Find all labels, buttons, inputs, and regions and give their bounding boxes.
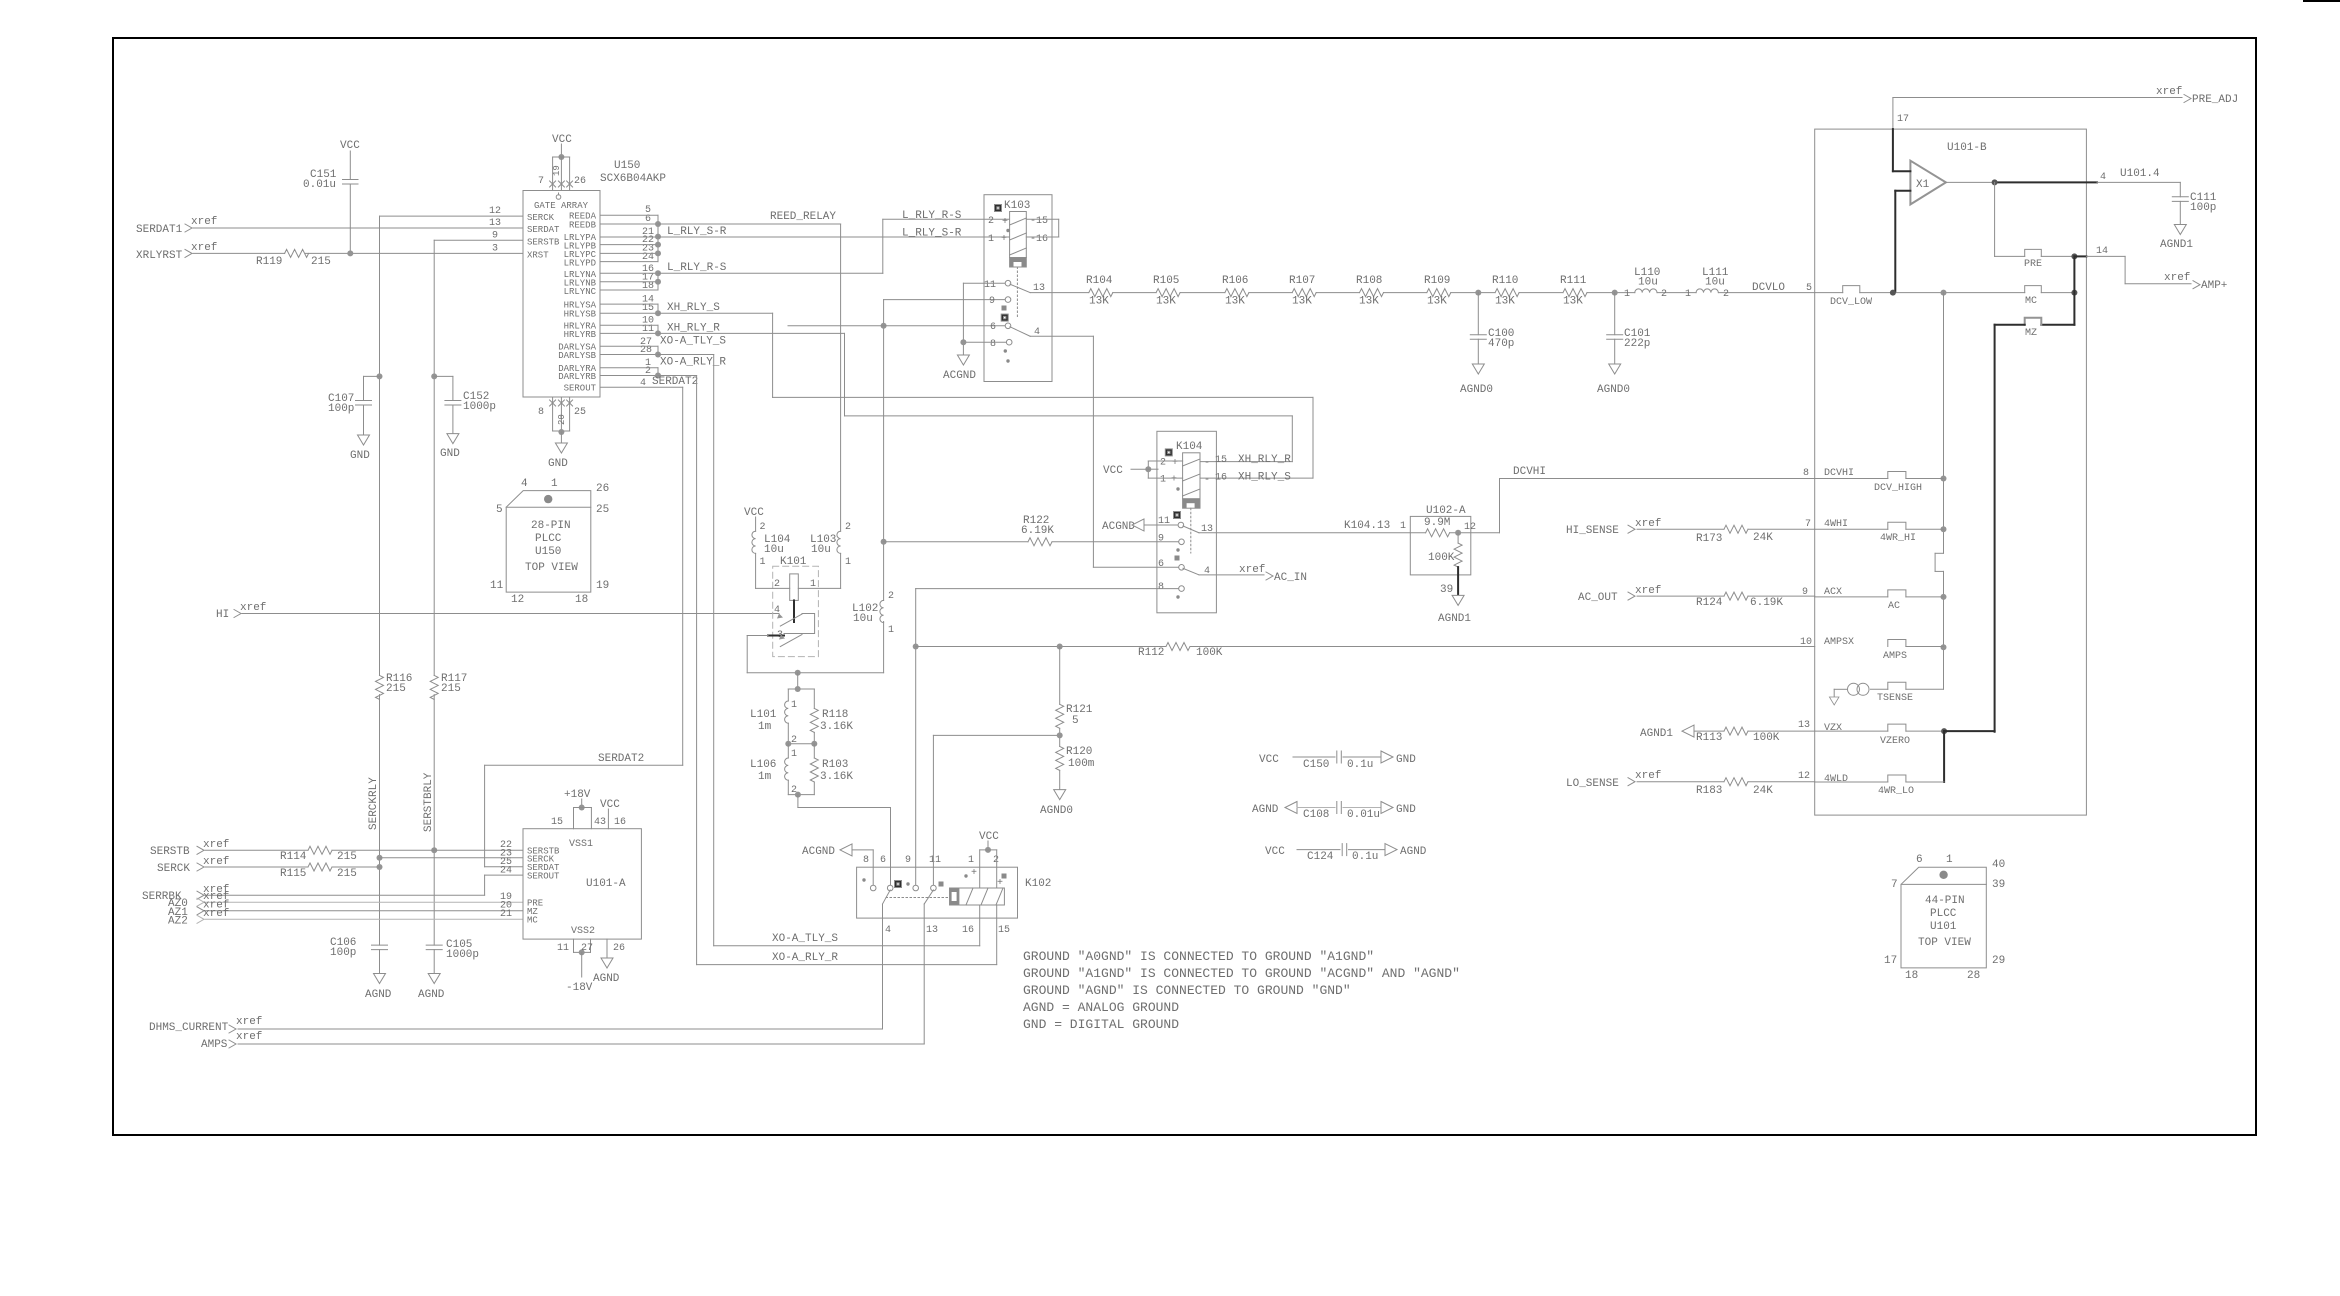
- svg-text:VCC: VCC: [552, 134, 572, 146]
- svg-text:11: 11: [929, 855, 941, 866]
- svg-text:8: 8: [1803, 468, 1809, 479]
- svg-text:MC: MC: [527, 916, 538, 926]
- resistor R124: [1696, 592, 1783, 609]
- svg-text:-: -: [1204, 458, 1210, 469]
- svg-text:DCVHI: DCVHI: [1824, 468, 1854, 479]
- svg-text:MC: MC: [2025, 296, 2037, 307]
- svg-text:25: 25: [596, 504, 609, 516]
- svg-text:R108: R108: [1356, 275, 1382, 287]
- svg-text:U101.4: U101.4: [2120, 168, 2160, 180]
- ground ACGND at K102: [802, 844, 873, 885]
- svg-text:U101-B: U101-B: [1947, 142, 1987, 154]
- svg-text:XO-A_TLY_S: XO-A_TLY_S: [772, 933, 838, 945]
- svg-text:K103: K103: [1004, 200, 1030, 212]
- svg-text:AMPSX: AMPSX: [1824, 637, 1854, 648]
- svg-text:R109: R109: [1424, 275, 1450, 287]
- svg-text:GROUND "AGND" IS CONNECTED TO: GROUND "AGND" IS CONNECTED TO GROUND "GN…: [1023, 983, 1351, 998]
- svg-text:13K: 13K: [1089, 296, 1109, 308]
- node AC_IN output: [1199, 564, 1307, 584]
- svg-text:AMP+: AMP+: [2201, 280, 2227, 292]
- svg-text:VCC: VCC: [1259, 754, 1279, 766]
- svg-text:XO-A_RLY_R: XO-A_RLY_R: [660, 357, 726, 369]
- svg-text:SERDAT1: SERDAT1: [136, 224, 183, 236]
- resistor R106: [1222, 275, 1249, 308]
- svg-text:15: 15: [998, 925, 1010, 936]
- svg-text:HRLYSB: HRLYSB: [564, 310, 597, 320]
- svg-text:AGND1: AGND1: [1438, 613, 1471, 625]
- svg-text:13: 13: [1798, 720, 1810, 731]
- inductor L103: [798, 522, 851, 590]
- wire DCVLO rail with R104-R111 chain: [1030, 290, 1815, 296]
- wire SERSTBRLY vertical: [431, 240, 523, 945]
- svg-text:3.16K: 3.16K: [820, 721, 853, 733]
- svg-text:26: 26: [574, 176, 586, 187]
- svg-text:xref: xref: [2164, 272, 2190, 284]
- svg-text:REEDB: REEDB: [569, 221, 597, 231]
- svg-text:8: 8: [990, 339, 996, 350]
- node SERSTB xref input: [150, 839, 523, 858]
- svg-text:AMPS: AMPS: [201, 1039, 228, 1051]
- svg-text:SERDAT2: SERDAT2: [652, 376, 698, 388]
- svg-text:11: 11: [490, 580, 504, 592]
- svg-text:2: 2: [1160, 458, 1166, 469]
- switch DCV_HIGH: [1803, 468, 1944, 494]
- svg-text:VCC: VCC: [744, 507, 764, 519]
- svg-text:13K: 13K: [1156, 296, 1176, 308]
- svg-text:xref: xref: [1635, 770, 1661, 782]
- svg-text:1: 1: [791, 749, 797, 760]
- svg-text:VCC: VCC: [1103, 465, 1123, 477]
- svg-text:XH_RLY_S: XH_RLY_S: [1238, 472, 1291, 484]
- svg-text:100m: 100m: [1068, 758, 1095, 770]
- svg-text:-16: -16: [1030, 234, 1048, 245]
- wire L_RLY_S-R to K103 pin1: [658, 236, 1010, 238]
- svg-text:GROUND "A0GND" IS CONNECTED TO: GROUND "A0GND" IS CONNECTED TO GROUND "A…: [1023, 949, 1374, 964]
- svg-text:4: 4: [885, 925, 891, 936]
- svg-text:AGND: AGND: [1252, 804, 1279, 816]
- svg-text:100p: 100p: [330, 947, 356, 959]
- svg-text:3: 3: [492, 244, 498, 255]
- svg-text:VCC: VCC: [1265, 846, 1285, 858]
- svg-text:12: 12: [511, 594, 524, 606]
- svg-text:4WHI: 4WHI: [1824, 519, 1848, 530]
- svg-text:HRLYRB: HRLYRB: [564, 330, 597, 340]
- svg-text:5: 5: [1806, 283, 1812, 294]
- svg-text:+: +: [971, 868, 977, 879]
- IC U101-B: [1815, 129, 2087, 815]
- inductor L101 / resistor R118 pair: [750, 686, 853, 747]
- switch MC on DCVLO rail: [1806, 283, 2077, 308]
- svg-text:1: 1: [551, 478, 558, 490]
- svg-text:U102-A: U102-A: [1426, 505, 1466, 517]
- svg-text:4WR_HI: 4WR_HI: [1880, 533, 1916, 544]
- svg-text:11: 11: [557, 943, 569, 954]
- wire K103.6 line: [788, 325, 1005, 327]
- node LO_SENSE xref input: [1566, 770, 1815, 790]
- svg-text:ACX: ACX: [1824, 587, 1842, 598]
- node reed bus: [655, 215, 661, 378]
- svg-text:1: 1: [988, 234, 994, 245]
- svg-text:R112: R112: [1138, 647, 1164, 659]
- node DHMS_CURRENT xref input: [149, 1016, 883, 1034]
- wire L_RLY_R-S to K103 pin2: [658, 219, 1010, 273]
- resistor R120: [1040, 746, 1095, 817]
- svg-text:6.19K: 6.19K: [1750, 597, 1783, 609]
- svg-text:R104: R104: [1086, 275, 1113, 287]
- svg-text:SERSTB: SERSTB: [150, 846, 190, 858]
- svg-text:1: 1: [845, 557, 851, 568]
- svg-text:C150: C150: [1303, 759, 1329, 771]
- svg-text:xref: xref: [236, 1016, 262, 1028]
- svg-text:R107: R107: [1289, 275, 1315, 287]
- ground AGND U101-A pin 26: [593, 939, 625, 985]
- wire K103.4 to K104.6: [1030, 336, 1178, 567]
- wire SERCK to U101-A pin23: [380, 857, 524, 859]
- svg-text:29: 29: [1992, 955, 2005, 967]
- resistor R116: [376, 673, 413, 699]
- resistor R121: [1056, 647, 1093, 747]
- svg-text:+: +: [997, 878, 1003, 889]
- svg-text:6.19K: 6.19K: [1021, 525, 1054, 537]
- svg-text:L101: L101: [750, 709, 777, 721]
- svg-text:7: 7: [538, 176, 544, 187]
- transformer TSENSE: [1829, 682, 1943, 705]
- svg-text:2: 2: [993, 855, 999, 866]
- wire XO-A_RLY_R routing: [658, 376, 997, 965]
- svg-text:24: 24: [500, 866, 512, 877]
- svg-text:SERCK: SERCK: [527, 213, 555, 223]
- svg-text:2: 2: [774, 579, 780, 590]
- svg-text:GND: GND: [1396, 754, 1416, 766]
- svg-text:R106: R106: [1222, 275, 1248, 287]
- node SERCK xref input: [157, 856, 380, 875]
- svg-text:0.01u: 0.01u: [1347, 809, 1380, 821]
- svg-text:9: 9: [1802, 587, 1808, 598]
- svg-text:39: 39: [1440, 584, 1453, 596]
- resistor R183: [1696, 778, 1773, 797]
- svg-text:DCVLO: DCVLO: [1752, 282, 1785, 294]
- svg-text:13K: 13K: [1225, 296, 1245, 308]
- resistor R114: [280, 846, 357, 863]
- power +18V to U101-A pins 15/43: [551, 789, 606, 829]
- svg-text:AZ2: AZ2: [168, 916, 188, 928]
- svg-text:AGND0: AGND0: [1040, 805, 1073, 817]
- svg-text:15: 15: [1215, 455, 1227, 466]
- svg-text:24K: 24K: [1753, 532, 1773, 544]
- svg-text:AGND: AGND: [1400, 846, 1427, 858]
- wire SERDAT2 routing: [485, 387, 683, 867]
- svg-text:1: 1: [1400, 521, 1406, 532]
- svg-text:11: 11: [984, 280, 996, 291]
- svg-text:215: 215: [337, 851, 357, 863]
- svg-text:R121: R121: [1066, 704, 1093, 716]
- svg-text:4WLD: 4WLD: [1824, 774, 1848, 785]
- wire K101 pin3 net: [747, 622, 883, 690]
- node XRLYRST xref input: [136, 242, 523, 262]
- resistor R173: [1696, 525, 1773, 545]
- svg-text:215: 215: [441, 683, 461, 695]
- svg-text:DHMS_CURRENT: DHMS_CURRENT: [149, 1022, 229, 1034]
- svg-text:ACGND: ACGND: [1102, 521, 1135, 533]
- svg-text:SERDAT: SERDAT: [527, 225, 560, 235]
- svg-text:VCC: VCC: [979, 831, 999, 843]
- svg-text:215: 215: [386, 683, 406, 695]
- node HI_SENSE xref input: [1566, 518, 1815, 537]
- svg-text:MZ: MZ: [2025, 328, 2037, 339]
- svg-text:+: +: [1001, 234, 1007, 245]
- wire SERCKRLY vertical: [377, 216, 524, 945]
- svg-text:AC_OUT: AC_OUT: [1578, 592, 1618, 604]
- svg-text:SERCK: SERCK: [157, 863, 190, 875]
- inductor L111: [1685, 267, 1729, 300]
- IC U101 44-PIN PLCC top view: [1884, 854, 2005, 982]
- svg-text:TOP VIEW: TOP VIEW: [1918, 937, 1971, 949]
- svg-text:AGND1: AGND1: [2160, 239, 2193, 251]
- wire K102.9 riser to K104.8: [913, 589, 919, 885]
- svg-text:SCX6B04AKP: SCX6B04AKP: [600, 173, 666, 185]
- svg-text:HI: HI: [216, 609, 229, 621]
- svg-text:xref: xref: [191, 242, 217, 254]
- svg-text:AMPS: AMPS: [1883, 651, 1907, 662]
- capacitor C100: [1460, 293, 1514, 396]
- svg-text:+: +: [1172, 458, 1178, 469]
- capacitor C124 decoupling: [1265, 844, 1427, 863]
- svg-text:LRLYPD: LRLYPD: [564, 259, 596, 269]
- svg-text:12: 12: [1464, 522, 1476, 533]
- inductor L106 / resistor R103 pair: [750, 744, 891, 885]
- svg-text:+18V: +18V: [564, 789, 591, 801]
- svg-text:L_RLY_R-S: L_RLY_R-S: [902, 210, 962, 222]
- svg-text:R113: R113: [1696, 732, 1722, 744]
- svg-text:xref: xref: [203, 908, 229, 920]
- svg-text:L_RLY_S-R: L_RLY_S-R: [902, 228, 962, 240]
- svg-text:GND: GND: [440, 448, 460, 460]
- svg-text:28: 28: [1967, 970, 1980, 982]
- svg-text:GATE ARRAY: GATE ARRAY: [534, 201, 589, 211]
- border frame: [113, 38, 2256, 1135]
- svg-text:10: 10: [1800, 637, 1812, 648]
- svg-text:GND: GND: [548, 458, 568, 470]
- svg-text:R115: R115: [280, 868, 306, 880]
- svg-text:13K: 13K: [1495, 296, 1515, 308]
- svg-text:13: 13: [1201, 524, 1213, 535]
- sheet edge tick top right: [2304, 0, 2340, 2]
- svg-text:13K: 13K: [1427, 296, 1447, 308]
- wire DCVHI: [1500, 466, 1815, 533]
- svg-text:SERCKRLY: SERCKRLY: [368, 777, 380, 830]
- svg-text:HI_SENSE: HI_SENSE: [1566, 525, 1619, 537]
- IC U102-A: [1410, 505, 1499, 625]
- svg-text:4WR_LO: 4WR_LO: [1878, 786, 1914, 797]
- svg-text:X1: X1: [1916, 179, 1930, 191]
- relay K104: [916, 431, 1313, 613]
- svg-text:18: 18: [1905, 970, 1918, 982]
- svg-text:12: 12: [1798, 771, 1810, 782]
- resistor R109: [1424, 275, 1451, 308]
- capacitor C106: [330, 937, 392, 1001]
- svg-text:xref: xref: [2156, 86, 2182, 98]
- svg-text:40: 40: [1992, 859, 2005, 871]
- wire pin14 to AMP+: [2074, 246, 2227, 292]
- svg-text:-: -: [1204, 475, 1210, 486]
- ground ACGND at K104: [1102, 519, 1144, 533]
- svg-text:100K: 100K: [1196, 647, 1223, 659]
- switch AC: [1802, 587, 1944, 612]
- svg-text:2: 2: [888, 591, 894, 602]
- svg-text:10u: 10u: [1705, 277, 1725, 289]
- resistor R111: [1560, 275, 1587, 308]
- relay K101: [768, 556, 818, 657]
- svg-text:XO-A_TLY_S: XO-A_TLY_S: [660, 336, 726, 348]
- svg-text:VZX: VZX: [1824, 723, 1842, 734]
- svg-text:VCC: VCC: [600, 799, 620, 811]
- svg-text:0.01u: 0.01u: [303, 179, 336, 191]
- svg-text:5: 5: [496, 504, 503, 516]
- svg-text:xref: xref: [203, 839, 229, 851]
- svg-text:R105: R105: [1153, 275, 1179, 287]
- power VCC at K104: [1103, 465, 1158, 477]
- svg-text:REED_RELAY: REED_RELAY: [770, 211, 836, 223]
- svg-text:9: 9: [1158, 534, 1164, 545]
- capacitor C108 decoupling: [1252, 802, 1416, 822]
- svg-text:DCVHI: DCVHI: [1513, 466, 1546, 478]
- capacitor C101: [1597, 293, 1651, 396]
- relay K103: [963, 195, 1058, 382]
- svg-text:1000p: 1000p: [446, 949, 479, 961]
- inductor L104: [744, 507, 791, 590]
- wire DCV sense vertical: [1935, 293, 1946, 690]
- svg-text:215: 215: [311, 256, 331, 268]
- svg-text:R124: R124: [1696, 597, 1723, 609]
- svg-text:C108: C108: [1303, 809, 1329, 821]
- svg-text:xref: xref: [236, 1031, 262, 1043]
- svg-text:0.1u: 0.1u: [1352, 851, 1378, 863]
- svg-text:13K: 13K: [1292, 296, 1312, 308]
- svg-text:AGND0: AGND0: [1597, 384, 1630, 396]
- svg-text:AGND: AGND: [593, 973, 620, 985]
- svg-text:28-PIN: 28-PIN: [531, 520, 571, 532]
- svg-text:VSS2: VSS2: [571, 926, 595, 937]
- svg-text:SERDAT2: SERDAT2: [598, 753, 644, 765]
- svg-text:8: 8: [1158, 582, 1164, 593]
- U150 right pin names: [558, 212, 596, 394]
- svg-text:U101: U101: [1930, 921, 1957, 933]
- svg-text:PRE_ADJ: PRE_ADJ: [2192, 94, 2238, 106]
- node SERDAT1 xref input: [136, 216, 523, 236]
- resistor R112: [916, 643, 1815, 660]
- svg-text:XH_RLY_R: XH_RLY_R: [667, 323, 720, 335]
- svg-text:20: 20: [557, 414, 567, 425]
- svg-text:1000p: 1000p: [463, 401, 496, 413]
- power -18V on U101-A pins 11/27: [557, 939, 593, 994]
- svg-text:XH_RLY_S: XH_RLY_S: [667, 302, 720, 314]
- svg-text:xref: xref: [1635, 518, 1661, 530]
- capacitor C152: [434, 376, 496, 460]
- svg-text:7: 7: [1805, 519, 1811, 530]
- resistor R105: [1153, 275, 1180, 308]
- IC U150 gate array: [523, 160, 666, 397]
- svg-text:6: 6: [880, 855, 886, 866]
- U150 left pin names: [489, 206, 560, 261]
- svg-text:8: 8: [538, 407, 544, 418]
- IC U101-A: [500, 829, 641, 939]
- svg-text:xref: xref: [1239, 564, 1265, 576]
- svg-text:14: 14: [2096, 246, 2108, 257]
- switch PRE: [1995, 182, 2078, 270]
- svg-text:GND: GND: [350, 450, 370, 462]
- svg-text:xref: xref: [191, 216, 217, 228]
- switch 4WR_LO: [1798, 771, 1944, 797]
- svg-text:XRLYRST: XRLYRST: [136, 250, 183, 262]
- svg-text:6: 6: [1158, 559, 1164, 570]
- resistor R119: [256, 249, 331, 268]
- svg-text:K104: K104: [1176, 441, 1203, 453]
- svg-text:1: 1: [1160, 475, 1166, 486]
- svg-text:TSENSE: TSENSE: [1877, 693, 1913, 704]
- svg-text:15: 15: [642, 303, 654, 314]
- node AZ0 xref input: [168, 891, 523, 910]
- svg-text:1: 1: [791, 700, 797, 711]
- svg-text:L_RLY_S-R: L_RLY_S-R: [667, 226, 727, 238]
- resistor R122: [884, 515, 1178, 546]
- svg-text:4: 4: [521, 478, 528, 490]
- svg-text:10u: 10u: [764, 544, 784, 556]
- svg-text:470p: 470p: [1488, 338, 1514, 350]
- svg-text:DARLYRB: DARLYRB: [558, 372, 596, 382]
- wire REED_RELAY: [658, 211, 841, 531]
- svg-text:xref: xref: [1635, 585, 1661, 597]
- wire pin17 to PRE_ADJ: [1893, 86, 2238, 129]
- svg-text:1: 1: [1685, 289, 1691, 300]
- capacitor C151: [303, 140, 360, 256]
- svg-text:SERSTB: SERSTB: [527, 238, 560, 248]
- svg-text:XH_RLY_R: XH_RLY_R: [1238, 454, 1291, 466]
- svg-text:DCV_LOW: DCV_LOW: [1830, 297, 1872, 308]
- svg-text:2: 2: [1661, 289, 1667, 300]
- svg-text:6: 6: [990, 322, 996, 333]
- svg-text:1: 1: [1624, 289, 1630, 300]
- ground AGND1 with R113: [1640, 725, 1815, 740]
- svg-text:GND = DIGITAL GROUND: GND = DIGITAL GROUND: [1023, 1017, 1179, 1032]
- power VCC to U101-A pin 16: [600, 799, 626, 829]
- svg-text:17: 17: [1884, 955, 1897, 967]
- svg-text:39: 39: [1992, 879, 2005, 891]
- svg-text:13: 13: [926, 925, 938, 936]
- svg-text:U150: U150: [535, 546, 561, 558]
- resistor R110: [1492, 275, 1519, 308]
- svg-text:26: 26: [596, 483, 609, 495]
- svg-text:R120: R120: [1066, 746, 1092, 758]
- svg-text:xref: xref: [240, 602, 266, 614]
- svg-text:VZERO: VZERO: [1880, 736, 1910, 747]
- svg-text:2: 2: [760, 522, 766, 533]
- svg-text:27: 27: [581, 943, 593, 954]
- svg-text:ACGND: ACGND: [943, 370, 976, 382]
- inductor L110: [1624, 267, 1667, 300]
- svg-text:VCC: VCC: [340, 140, 360, 152]
- svg-text:DARLYSB: DARLYSB: [558, 351, 596, 361]
- svg-text:SEROUT: SEROUT: [564, 384, 597, 394]
- svg-text:1: 1: [1946, 854, 1953, 866]
- svg-text:1m: 1m: [758, 721, 772, 733]
- svg-text:9: 9: [905, 855, 911, 866]
- wire XH_RLY_R routing: [658, 333, 1292, 461]
- svg-text:-15: -15: [1030, 216, 1048, 227]
- svg-text:4: 4: [2100, 172, 2106, 183]
- svg-text:AC: AC: [1888, 601, 1900, 612]
- svg-text:1: 1: [968, 855, 974, 866]
- inductor L102: [852, 591, 894, 636]
